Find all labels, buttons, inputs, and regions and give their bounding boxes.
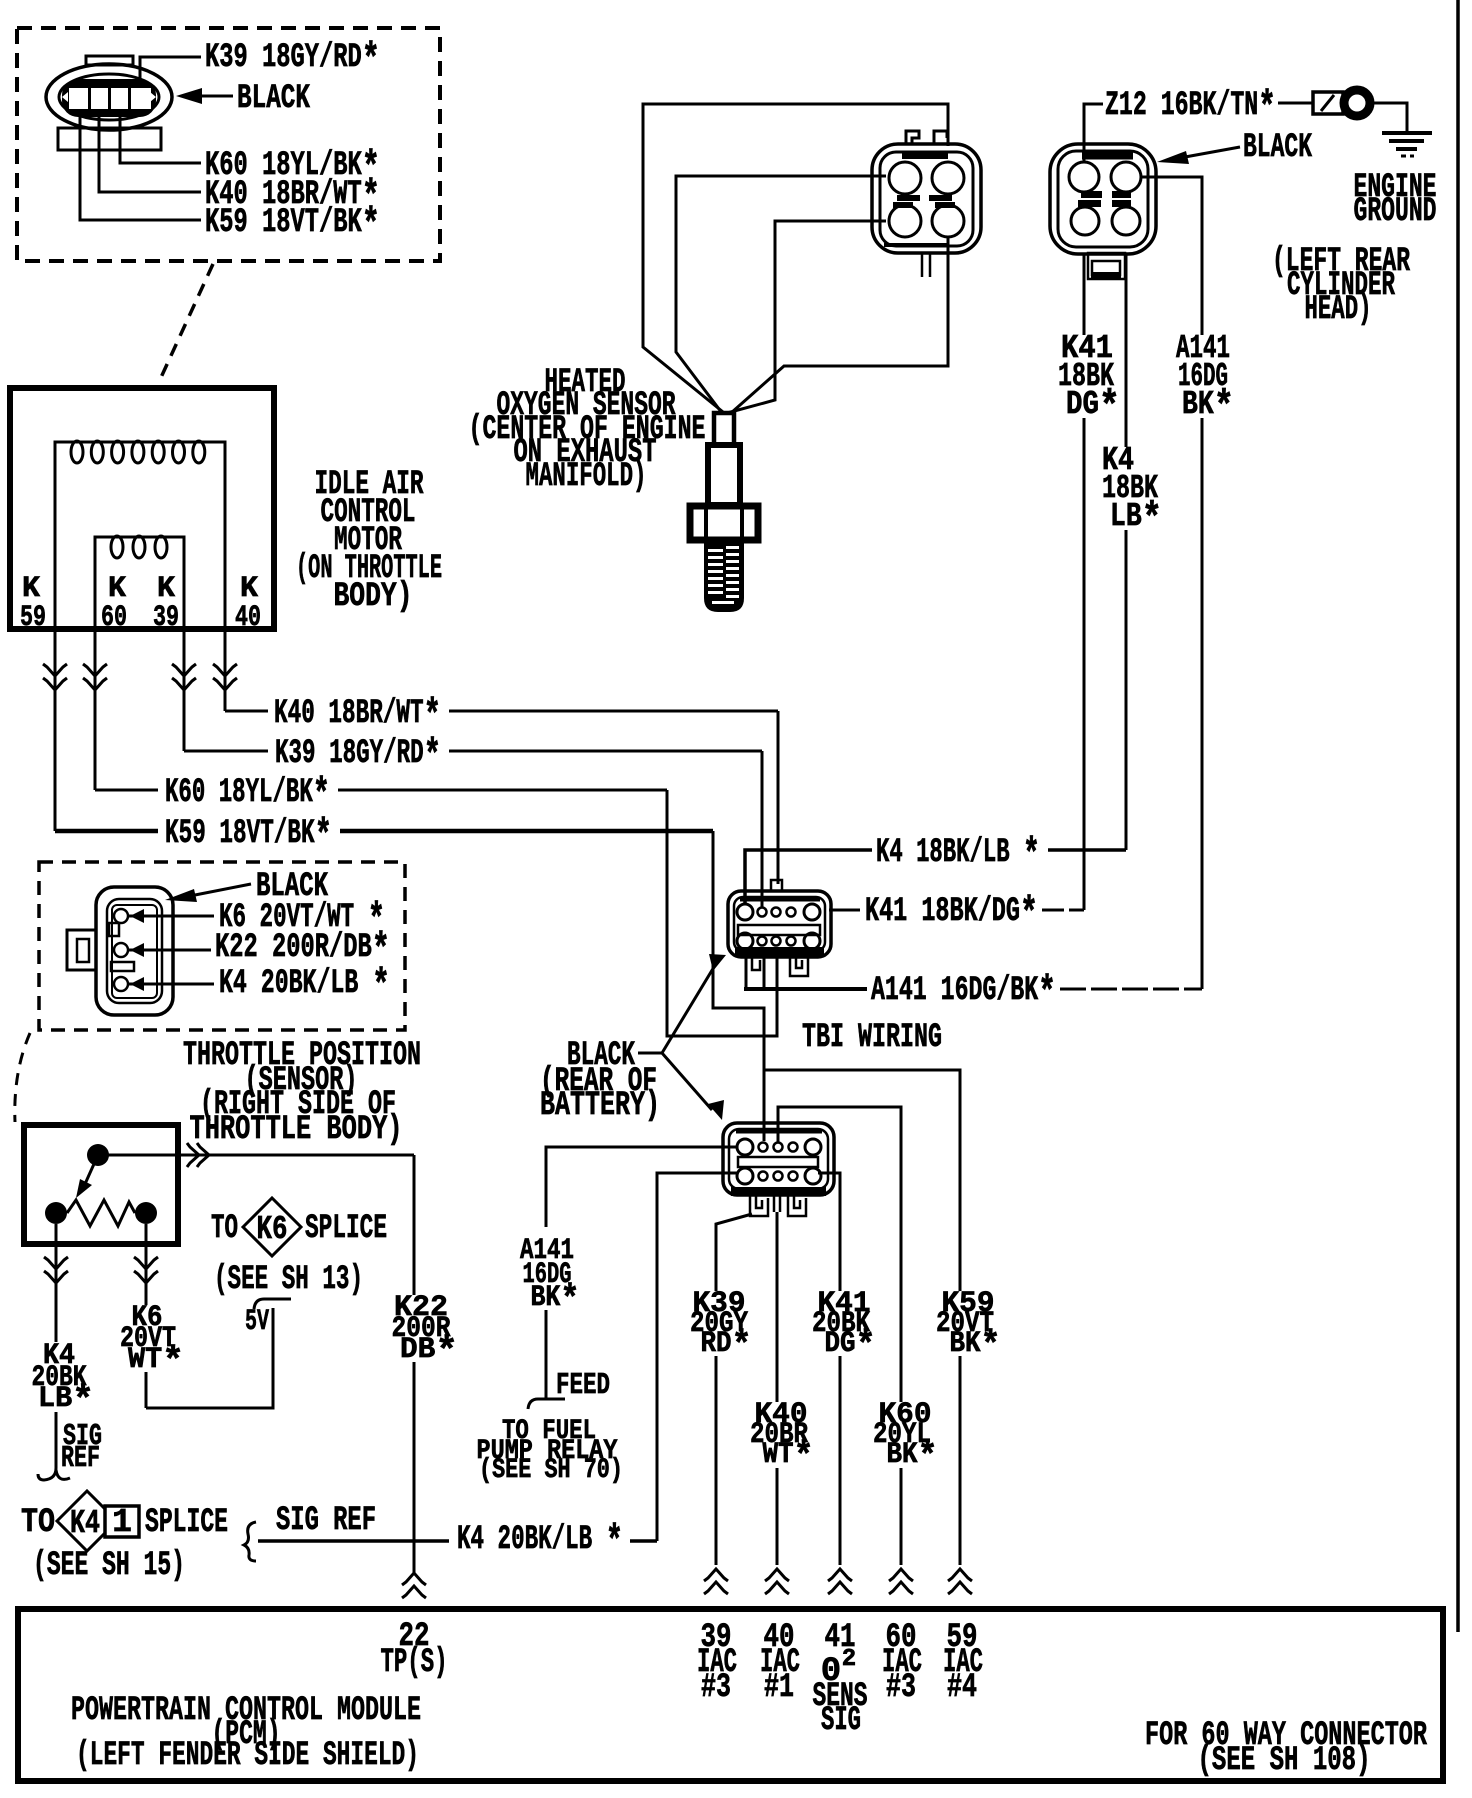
wire O2 sensor lead 4 (to BR pin)	[731, 238, 948, 413]
splice symbol K4 with terminal 1 box	[57, 1491, 139, 1551]
wire tag K6 20VT WT*	[118, 1305, 186, 1372]
detail callout dashed box (IAC connector)	[17, 28, 440, 261]
wire ring terminal to engine ground	[1370, 103, 1407, 131]
TPS resistor end node left	[45, 1202, 67, 1224]
svg-text:5V: 5V	[245, 1305, 269, 1339]
svg-text:THROTTLE BODY): THROTTLE BODY)	[190, 1111, 403, 1149]
arrow to BLACK label (heater connector)	[1157, 147, 1240, 164]
IAC motor box	[10, 388, 274, 629]
svg-text:SPLICE: SPLICE	[305, 1210, 387, 1248]
svg-text:BATTERY): BATTERY)	[540, 1087, 660, 1125]
wire A141 to fuel pump relay feed	[528, 1310, 565, 1409]
svg-text:HEAD): HEAD)	[1305, 291, 1372, 329]
heated oxygen sensor connector (4-way)	[872, 131, 981, 277]
wire K4 18BK/LB* vertical from heater connector	[1125, 254, 1128, 850]
wire K39 vertical to upper TBI connector	[761, 751, 764, 908]
svg-text:BLACK: BLACK	[1243, 129, 1312, 167]
TPS callout dashed box	[39, 862, 405, 1030]
svg-text:SPLICE: SPLICE	[145, 1504, 228, 1542]
svg-text:#3: #3	[701, 1669, 731, 1707]
wire: K40 pin lead in callout	[99, 115, 201, 192]
engine ground symbol	[1382, 133, 1432, 156]
svg-text:#3: #3	[886, 1669, 916, 1707]
wire: K22 pin lead (TPS callout)	[129, 949, 211, 952]
dashed leader from TPS callout box to TPS box	[15, 1033, 30, 1122]
svg-text:TO: TO	[211, 1210, 238, 1248]
wire K41 from lower TBI connector to PCM pin 41	[818, 1173, 840, 1565]
wire/label row K59 18VT/BK*	[55, 829, 713, 834]
wire/label row K41 18BK/DG* (upper)	[829, 909, 1084, 912]
heated oxygen sensor body	[690, 413, 758, 612]
arrow fork from BLACK (rear of battery) label	[638, 954, 726, 1120]
wire/label row K60 18YL/BK*	[95, 789, 667, 792]
wire K59 from IAC pin K59	[43, 629, 67, 831]
wire K60 from lower TBI connector to PCM pin 60	[778, 1107, 901, 1565]
wire tag K4 20BK LB* (TPS wire)	[28, 1342, 96, 1412]
svg-text:TBI WIRING: TBI WIRING	[802, 1019, 942, 1057]
svg-text:60: 60	[101, 601, 127, 635]
label K4 18BK LB* (wire tag)	[1100, 447, 1164, 530]
wire K40 from IAC pin K40	[213, 629, 237, 711]
svg-text:40: 40	[235, 601, 261, 635]
ring terminal (eyelet)	[1313, 90, 1370, 116]
arrow to BLACK label (callout)	[176, 88, 233, 104]
svg-text:MANIFOLD): MANIFOLD)	[526, 458, 647, 496]
IAC coil A (7 loops)	[55, 441, 225, 629]
svg-text:(LEFT FENDER SIDE SHIELD): (LEFT FENDER SIDE SHIELD)	[76, 1737, 419, 1775]
svg-text:(SEE SH 15): (SEE SH 15)	[33, 1547, 185, 1585]
wire K6 from TPS right pin to 5V feed	[134, 1224, 291, 1408]
arrow to BLACK label (TPS callout)	[165, 884, 251, 902]
wire K40 vertical to upper TBI connector	[777, 711, 780, 884]
right page border line	[1456, 0, 1460, 1632]
wire SIG REF / K4 20BK/LB* to lower TBI connector	[258, 1173, 738, 1541]
wire/label row A141 16DG/BK* (upper)	[744, 987, 1202, 991]
wire: K59 pin lead in callout	[80, 115, 201, 220]
TPS resistor element	[67, 1200, 135, 1226]
wire/label row K4 18BK/LB* (upper)	[745, 850, 1126, 905]
wire K41 18BK/DG* vertical from heater connector	[1083, 254, 1086, 910]
wire Z12 16BK/TN* from connector to label	[1084, 104, 1103, 162]
svg-text:BODY): BODY)	[334, 578, 413, 616]
label A141 16DG BK* (wire tag)	[1174, 335, 1236, 418]
wire tag A141 16DG BK* (lower)	[518, 1238, 582, 1310]
PCM entry chevrons pins 39 40 41 60 59	[704, 1569, 972, 1594]
wire: K4 pin lead (TPS callout)	[129, 983, 214, 986]
wire K39 from IAC pin K39	[172, 629, 196, 751]
wire from Z12 label to ring terminal	[1278, 102, 1313, 105]
svg-text:(SEE SH 13): (SEE SH 13)	[214, 1261, 363, 1299]
dashed leader from callout box to IAC motor box	[158, 264, 213, 384]
svg-text:39: 39	[153, 601, 179, 635]
svg-text:SIG: SIG	[821, 1702, 861, 1740]
wire O2 sensor lead 1 (to TR pin)	[643, 104, 948, 412]
svg-text:2: 2	[842, 1646, 856, 1673]
wire K59 vertical/jog to lower TBI connector	[713, 831, 764, 1141]
wire/label row K40 18BR/WT*	[225, 710, 778, 713]
wire K60 from IAC pin K60	[83, 629, 107, 790]
svg-text:GROUND: GROUND	[1354, 193, 1437, 231]
TPS resistor end node right	[135, 1202, 157, 1224]
wire tag K60 20YL BK*	[870, 1402, 942, 1468]
IAC 4-way connector face (oval)	[46, 56, 172, 150]
wire K22 from wiper out of box	[98, 1143, 426, 1598]
wire O2 sensor lead 2 (to TL pin)	[676, 176, 886, 413]
upper TBI wiring connector (engine side)	[728, 880, 831, 988]
svg-text:TO: TO	[21, 1504, 55, 1542]
splice symbol K6 (diamond)	[243, 1198, 301, 1256]
TPS wiper contact node	[87, 1144, 109, 1166]
svg-text:#1: #1	[764, 1669, 794, 1707]
svg-text:(SEE SH 108): (SEE SH 108)	[1198, 1742, 1371, 1780]
wire: K6 pin lead (TPS callout)	[129, 915, 214, 918]
wire O2 sensor lead 3 (to BL pin)	[727, 221, 886, 413]
brace squiggle at SIG REF line	[244, 1522, 256, 1561]
svg-text:REF: REF	[61, 1441, 100, 1476]
powertrain control module box	[18, 1609, 1443, 1781]
wire K60 vertical/jog to upper TBI connector	[667, 790, 777, 1036]
wire: K60 pin lead in callout	[120, 115, 201, 163]
TPS potentiometer box	[24, 1125, 178, 1244]
wire tag K41 20BK DG*	[810, 1291, 878, 1356]
svg-text:(SEE SH 70): (SEE SH 70)	[479, 1455, 623, 1486]
svg-text:59: 59	[20, 601, 46, 635]
wire tag K39 20GY RD*	[688, 1291, 754, 1356]
wire A141 16DG/BK* from heater connector right pin	[1141, 177, 1202, 989]
TPS wiper arm arrow	[76, 1155, 98, 1198]
lower TBI wiring connector (harness side)	[723, 1123, 834, 1216]
svg-text:FEED: FEED	[556, 1368, 610, 1403]
wire tag K22 200R DB*	[390, 1295, 460, 1362]
svg-text:1: 1	[112, 1504, 132, 1541]
wire tag K40 20BR WT*	[746, 1402, 818, 1468]
wire K39 from lower TBI connector to PCM pin 39	[716, 1214, 752, 1565]
svg-text:SIG REF: SIG REF	[276, 1502, 376, 1540]
wire tag K59 20VT BK*	[933, 1291, 1005, 1356]
svg-text:TP(S): TP(S)	[381, 1644, 448, 1682]
TPS 3-way connector face	[67, 887, 173, 1015]
wire K59 branch to PCM pin 59	[764, 1070, 960, 1565]
svg-text:K6: K6	[257, 1211, 288, 1248]
svg-text:#4: #4	[947, 1669, 977, 1707]
oxygen sensor heater connector (4-way, left rear cyl head)	[1050, 144, 1156, 279]
svg-text:K4: K4	[70, 1505, 100, 1542]
wire K4 from TPS left pin	[38, 1224, 70, 1480]
wire K40 from lower TBI connector to PCM pin 40	[776, 1212, 779, 1565]
IAC coil B (3 loops)	[95, 536, 184, 629]
label K41 18BK DG* (wire tag)	[1056, 335, 1122, 418]
wire A141 into lower TBI connector	[546, 1147, 737, 1227]
wire: K39 pin lead in callout	[140, 57, 201, 85]
wire/label row K39 18GY/RD*	[184, 750, 762, 753]
svg-text:BLACK: BLACK	[237, 80, 310, 118]
